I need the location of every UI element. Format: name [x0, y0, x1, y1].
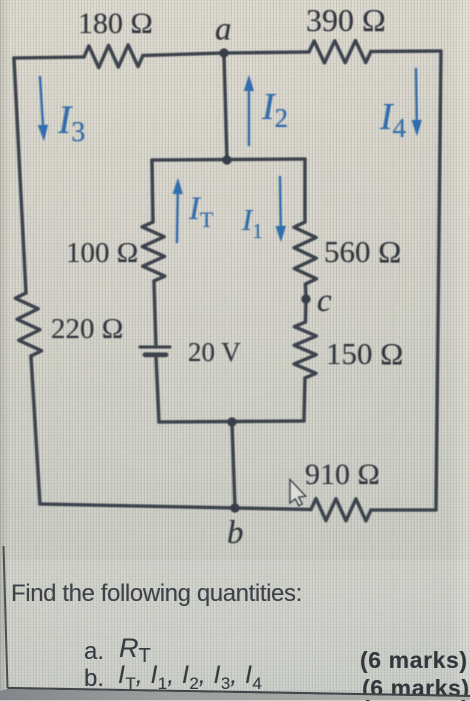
wire: right outer vertical: [436, 51, 441, 510]
wire: top-right segment: [371, 49, 441, 53]
wire: inner top horizontal: [152, 159, 305, 160]
resistor R 180ohm: [84, 45, 143, 68]
inner bottom junction dot: [227, 417, 236, 426]
resistor R 220ohm: [15, 293, 41, 356]
item a label: [84, 640, 104, 664]
wire: node-a to inner top: [224, 53, 227, 160]
marks line 1: [360, 649, 468, 672]
wire: inner left leg to battery: [154, 281, 156, 346]
marks line 2: [362, 677, 470, 700]
resistor R 560ohm: [294, 222, 317, 284]
wire: left outer lower: [31, 356, 40, 504]
wire: top segment 180-to-node-a: [143, 53, 224, 56]
wire: 560 to node c: [304, 284, 308, 322]
battery 20V short plate: [145, 352, 166, 357]
answer panel bottom border line: [8, 688, 470, 696]
node b junction dot: [230, 503, 239, 512]
inner top junction dot: [222, 155, 231, 164]
current arrow IT (up): [173, 178, 183, 243]
wire: top segment node-a to 390: [224, 52, 309, 53]
battery 20V long plate: [140, 346, 170, 349]
wire: left outer upper: [14, 58, 26, 293]
wire: 150 to inner bottom: [304, 378, 305, 421]
node a junction dot: [219, 48, 228, 57]
resistor R 390ohm: [309, 41, 371, 63]
wire: inner left leg upper: [152, 160, 153, 222]
wire: inner right leg upper: [303, 159, 306, 222]
wire: battery to inner bottom: [156, 356, 159, 422]
current arrow I1 (down): [276, 176, 286, 242]
wire: bottom outer right segment: [371, 508, 436, 511]
prompt text: Find the following quantities: [11, 582, 302, 606]
resistor R 910ohm: [311, 499, 371, 522]
resistor R 150ohm: [294, 322, 316, 378]
item b label: [84, 667, 104, 691]
item b: IT I1 I2 I3 I4: [118, 663, 262, 696]
light answer panel region: [5, 560, 470, 690]
current arrow I4 (down): [412, 68, 422, 136]
item a: RT: [119, 635, 151, 670]
wire: outer top-left segment: [14, 57, 84, 58]
resistor R 100ohm: [142, 222, 165, 281]
mouse cursor pointer: [290, 480, 306, 506]
current arrow I3 (down): [38, 76, 48, 141]
current arrow I2 (up): [244, 75, 254, 146]
wire: bottom outer left segment: [40, 504, 311, 510]
node c junction dot: [301, 294, 310, 303]
wire: inner bottom horizontal: [159, 421, 304, 422]
wire: inner bottom to node b: [232, 422, 235, 508]
